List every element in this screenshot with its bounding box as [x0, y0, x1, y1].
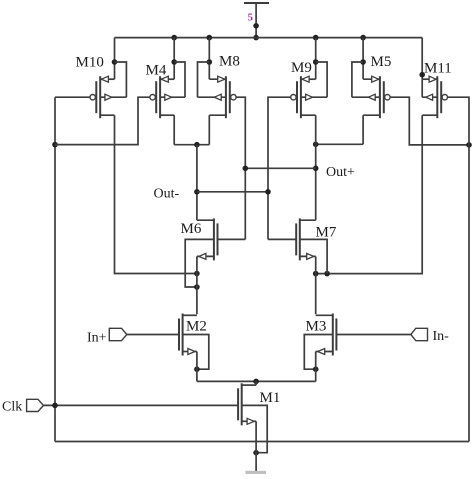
label M8 — [219, 54, 240, 70]
transistor M10 — [90, 38, 126, 119]
power VDD symbol — [244, 3, 269, 38]
svg-text:M6: M6 — [181, 221, 202, 237]
wire M6 source down — [196, 256, 198, 314]
junction M6 bulk — [194, 284, 200, 290]
wire M7 drain up — [315, 219, 317, 221]
junction Out+ right — [313, 166, 319, 172]
wire M10 drain down — [115, 115, 197, 273]
label M2 — [186, 319, 207, 335]
transistor M11 — [419, 38, 447, 119]
wire M9 gate to Out- — [268, 97, 291, 239]
wire M5 gate — [390, 97, 469, 145]
junction rail M8 — [207, 35, 213, 41]
wire clk vertical left — [54, 97, 56, 441]
svg-text:M7: M7 — [316, 225, 337, 241]
junction clk-M5gate — [466, 142, 472, 148]
wire M6 drain up — [196, 219, 198, 221]
junction M3 bulk — [313, 366, 319, 372]
port In+ — [109, 328, 127, 340]
junction clk — [52, 403, 58, 409]
wire tail horizontal — [197, 380, 316, 382]
net label 5 — [248, 12, 254, 24]
junction tail left — [194, 271, 200, 277]
label In+ — [87, 331, 107, 346]
wire M7 source down — [315, 256, 317, 314]
junction rail M9 — [313, 35, 319, 41]
junction on VDD stem — [253, 23, 259, 29]
wire M7 bulk bracket — [300, 239, 327, 273]
wire M1 source down — [255, 421, 257, 471]
junction tail right — [313, 271, 319, 277]
wire M4-M8 drains — [174, 144, 209, 146]
wire M9-M5 drains — [316, 143, 363, 145]
junction M7 bulk tie — [324, 271, 330, 277]
junction M2 bulk — [194, 366, 200, 372]
svg-text:Clk: Clk — [2, 400, 22, 415]
svg-text:M1: M1 — [260, 390, 281, 406]
label M5 — [371, 54, 392, 70]
label M6 — [181, 221, 202, 237]
wire M5 drain down — [362, 115, 364, 144]
transistor M6 — [197, 218, 218, 260]
label M4 — [146, 63, 167, 79]
wire M9 drain down to M7 drain — [315, 115, 317, 220]
label M3 — [306, 319, 327, 335]
label M1 — [260, 390, 281, 406]
port In- — [411, 328, 428, 340]
transistor M9 — [291, 38, 327, 119]
wire M8 drain down — [208, 115, 210, 145]
label M10 — [76, 55, 104, 71]
transistor M5 — [352, 38, 390, 119]
transistor M3 — [316, 314, 337, 356]
junction Out- right — [265, 189, 271, 195]
junction M1 drain — [253, 379, 259, 385]
label In- — [433, 329, 450, 344]
wire M6 gate — [218, 238, 246, 240]
label Out- — [154, 187, 180, 202]
wire M4 drain down — [173, 115, 175, 145]
wire In+ to M2 gate — [127, 334, 179, 336]
wire M11 gate to clk line — [447, 97, 469, 441]
svg-text:In-: In- — [433, 329, 450, 344]
transistor M4 — [150, 38, 185, 119]
junction VDD-rail — [253, 35, 259, 41]
junction Out+ left — [243, 166, 249, 172]
wire M10 gate to clk line — [55, 96, 90, 98]
wire M1 drain up — [255, 381, 257, 385]
wire M1 bulk bracket — [242, 405, 268, 452]
wire M3 bulk bracket — [304, 335, 333, 370]
transistor M1 — [238, 383, 256, 425]
svg-text:M5: M5 — [371, 54, 392, 70]
transistor M7 — [296, 218, 316, 260]
wire Clk to M1 gate — [44, 404, 239, 406]
label Clk — [2, 400, 22, 415]
label M9 — [291, 60, 312, 76]
svg-text:Out-: Out- — [154, 187, 180, 202]
svg-text:M3: M3 — [306, 319, 327, 335]
wire node A down to M6 drain — [196, 145, 198, 221]
svg-text:M4: M4 — [146, 63, 167, 79]
wire VDD rail — [115, 37, 423, 39]
svg-text:5: 5 — [248, 12, 254, 24]
label M7 — [316, 225, 337, 241]
junction rail M5 — [360, 35, 366, 41]
junction rail M4 — [171, 35, 177, 41]
wire clk bottom loop — [55, 441, 469, 443]
wire M8 gate to Out+ — [236, 97, 246, 239]
port Clk — [27, 399, 44, 411]
wire M6 bulk hook — [185, 239, 214, 287]
wire M2 bulk bracket — [183, 335, 209, 370]
label M11 — [424, 61, 452, 77]
svg-text:M11: M11 — [424, 61, 452, 77]
svg-text:M2: M2 — [186, 319, 207, 335]
wire M2 source down — [196, 352, 198, 382]
wire Out+ horizontal — [245, 167, 315, 169]
wire Out- horizontal — [197, 191, 268, 193]
junction clk-M4gate — [52, 142, 58, 148]
svg-text:M9: M9 — [291, 60, 312, 76]
wire M11 drain down — [316, 115, 423, 273]
svg-text:In+: In+ — [87, 331, 107, 346]
wire M3 gate to In- — [337, 334, 411, 336]
junction M1 bulk — [253, 450, 259, 456]
wire M7 gate — [268, 238, 296, 240]
svg-text:M8: M8 — [219, 54, 240, 70]
junction OutB — [313, 142, 319, 148]
junction OutA — [194, 142, 200, 148]
label Out+ — [326, 165, 355, 180]
svg-text:M10: M10 — [76, 55, 104, 71]
ground — [246, 471, 267, 476]
svg-text:Out+: Out+ — [326, 165, 355, 180]
wire M3 source down — [315, 352, 317, 382]
transistor M2 — [179, 314, 197, 356]
wire M4 gate — [55, 97, 150, 144]
junction Out- left — [194, 189, 200, 195]
transistor M8 — [198, 38, 237, 119]
